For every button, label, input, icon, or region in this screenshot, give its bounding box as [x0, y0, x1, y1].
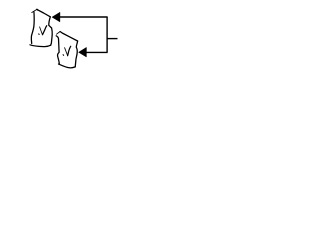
label V of source V2 — [63, 46, 71, 55]
voltage source V2 (hand-drawn box symbol) — [56, 32, 77, 68]
label V of source V1 — [39, 26, 47, 35]
voltage source V1 (hand-drawn box symbol) — [30, 9, 52, 46]
wire right rail (vertical) — [106, 17, 108, 53]
arrowhead into V1 — [52, 12, 60, 21]
wire top: arrow V1 to right rail — [60, 16, 108, 18]
terminal stub on right rail — [107, 38, 118, 40]
arrowhead into V2 — [79, 48, 87, 57]
wire bottom: right rail to arrow V2 — [86, 51, 108, 53]
